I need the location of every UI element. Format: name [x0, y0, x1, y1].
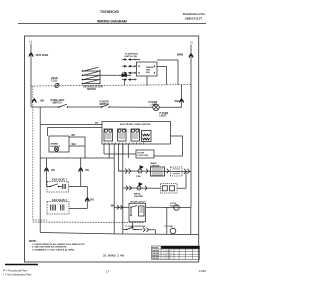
spark module box (left)	[49, 136, 69, 152]
spark box pin dots	[138, 66, 139, 67]
wire from box top right	[157, 60, 178, 85]
wire riser to dashed run	[181, 85, 183, 108]
row1 connector pair b	[184, 169, 190, 174]
oven lamp	[153, 104, 159, 110]
row2 igniter	[137, 186, 141, 190]
svg-text:17: 17	[106, 270, 110, 274]
selector right contact dots	[99, 71, 101, 84]
svg-text:LIGHT: LIGHT	[160, 116, 167, 118]
svg-text:BK: BK	[41, 99, 45, 103]
row1 connector b	[167, 169, 169, 173]
wire selector row to connector pair	[100, 74, 117, 76]
svg-text:P OVEN DOOR SW.: P OVEN DOOR SW.	[126, 226, 146, 228]
light circuit connector on L1	[32, 99, 36, 103]
wire from box bottom to dashed run	[146, 76, 148, 85]
wire riser to spark module	[47, 128, 49, 137]
svg-text:BK: BK	[91, 199, 95, 202]
row1 box solid	[151, 167, 165, 176]
wire oven dashed enclosure bottom stub	[33, 219, 47, 221]
wire row4 drop to dashed run	[124, 80, 126, 85]
row2 connector	[145, 186, 147, 190]
svg-text:BK: BK	[72, 134, 76, 137]
svg-text:P BK: P BK	[136, 176, 141, 178]
connector plug N	[189, 54, 193, 58]
svg-text:SW.: SW.	[146, 72, 150, 74]
relay K2	[118, 129, 127, 141]
svg-text:L1: L1	[29, 40, 33, 44]
svg-text:* = Non-Illustrated Part: * = Non-Illustrated Part	[3, 273, 32, 277]
svg-text:1. SHUNT REMOVE ALL WIRING ON: 1. SHUNT REMOVE ALL WIRING ON 3-WIRE AT …	[32, 243, 85, 246]
wire broil out	[69, 208, 87, 210]
svg-text:WH: WH	[72, 143, 76, 146]
parts table	[152, 246, 200, 259]
relay K1	[104, 129, 113, 141]
svg-text:BK: BK	[86, 169, 90, 172]
row2 connector pair	[126, 186, 132, 190]
connector plug L1	[29, 53, 33, 57]
connector on drop 2	[79, 168, 83, 172]
connector on latch row	[117, 205, 123, 209]
relay K3	[131, 129, 140, 141]
wire N bus lower	[190, 208, 192, 235]
svg-text:SPARK: SPARK	[51, 143, 59, 146]
svg-text:1 4 2 1 3 1: 1 4 2 1 3 1	[163, 258, 172, 260]
row1 igniter	[138, 169, 142, 173]
EOC pin drops	[104, 144, 128, 158]
wire drop 2	[80, 158, 82, 187]
svg-text:3. NUMBER N.O 3 NOT USED A AL: 3. NUMBER N.O 3 NOT USED A AL WIRE.	[32, 248, 75, 251]
svg-text:N: N	[191, 41, 193, 45]
svg-text:LOCK SW.: LOCK SW.	[138, 155, 149, 157]
row1 connector	[146, 169, 148, 173]
wire oven dashed enclosure left side	[32, 86, 34, 220]
wire pin long bus x114.2	[113, 144, 115, 234]
terminal row 1	[122, 59, 124, 61]
svg-text:TGF365CXD: TGF365CXD	[100, 10, 120, 14]
svg-text:5995271137: 5995271137	[185, 17, 202, 21]
row1 dashed box	[171, 167, 183, 176]
bake coil marks	[63, 184, 66, 189]
wire bottom return	[40, 233, 199, 235]
igniter electrode in box	[54, 147, 58, 151]
wire spark box out upper	[69, 136, 85, 138]
wire y84 segment to N bus	[147, 84, 191, 87]
oven light switch	[59, 104, 67, 107]
wire main dashed run y85 L1 to N	[31, 85, 147, 86]
wire pin corner to row1	[119, 144, 123, 171]
transformer T1	[142, 131, 152, 142]
connector on riser	[85, 198, 89, 202]
lock motor	[174, 205, 180, 211]
row2 dashed box	[161, 184, 178, 194]
bake switch	[47, 184, 62, 187]
wire riser x87.3	[86, 187, 88, 209]
door latch box	[129, 203, 146, 222]
selector switch right riser	[99, 70, 101, 84]
wire lamp to riser	[159, 106, 181, 108]
latch switch inside	[131, 206, 137, 216]
wire tap vertical from light line	[39, 107, 41, 158]
connector on door switch row	[143, 228, 149, 232]
row1 connector pair	[125, 169, 131, 174]
broil burner box	[47, 202, 69, 215]
wire pair to EOC upper	[40, 124, 102, 126]
wire from box right mid	[157, 67, 167, 85]
svg-text:SPARK: SPARK	[146, 66, 154, 69]
wire bake out	[69, 186, 88, 188]
connector on drop	[44, 168, 48, 172]
svg-text:GAS VALVE 1: GAS VALVE 1	[52, 179, 68, 182]
diagram border frame	[25, 36, 199, 262]
svg-text:BRN: BRN	[177, 53, 183, 57]
terminal row 4	[122, 79, 124, 81]
connector pair mid	[118, 74, 132, 77]
terminal row 3	[122, 72, 124, 74]
svg-text:NOTE:: NOTE:	[29, 240, 37, 243]
svg-text:240V 60HZ: 240V 60HZ	[36, 54, 49, 57]
connector on riser	[179, 99, 183, 103]
svg-text:UNITS & SW.: UNITS & SW.	[125, 56, 138, 58]
svg-text:TGF365: TGF365	[152, 258, 159, 260]
spark module box (top)	[137, 62, 158, 76]
svg-text:2. SEE USE WIRE AS SHOWN RE.: 2. SEE USE WIRE AS SHOWN RE.	[32, 246, 67, 249]
svg-text:SWITCH: SWITCH	[53, 103, 62, 105]
wire long dashed y222	[33, 221, 144, 224]
svg-text:BK: BK	[95, 123, 99, 125]
wire latch to lock motor	[146, 206, 191, 208]
wire light circuit	[31, 106, 59, 108]
wire spark box out lower	[69, 145, 85, 147]
door switch	[127, 227, 134, 230]
svg-text:31 8062 1 49: 31 8062 1 49	[103, 254, 124, 258]
bottom rule	[5, 264, 38, 266]
conv motor	[170, 228, 176, 234]
row2 wire	[123, 187, 161, 189]
bake burner box	[47, 182, 69, 193]
wire latch row	[114, 206, 129, 208]
svg-text:BK: BK	[111, 204, 115, 207]
wire L1 bus	[30, 44, 32, 108]
header rule	[18, 23, 206, 25]
svg-text:BK: BK	[52, 169, 56, 172]
broil element 2	[61, 205, 64, 211]
selector switch blades	[84, 67, 99, 83]
wire row2 to N	[177, 172, 186, 189]
wire tap down x166.8	[166, 208, 168, 235]
terminal pin marks	[134, 59, 136, 81]
door light switch	[102, 104, 109, 107]
svg-text:Publication No.: Publication No.	[183, 12, 206, 16]
wire riser x85	[84, 137, 86, 158]
svg-text:WH: WH	[175, 99, 179, 103]
wire pin bus y154	[104, 153, 136, 155]
EOC electronic oven control box	[102, 122, 171, 145]
wire horizontal y158	[40, 157, 114, 159]
selector switch contact dots	[82, 71, 84, 84]
svg-text:SWITCH: SWITCH	[87, 89, 96, 91]
wire drop to bake box	[46, 158, 48, 187]
EOC bottom pin ticks	[105, 143, 144, 145]
svg-text:IGNITER: IGNITER	[134, 196, 143, 198]
wire EOC right out	[154, 136, 183, 156]
wire left return vertical x40	[39, 158, 41, 233]
wire pin corner to row2	[122, 144, 124, 234]
relay box below EOC	[136, 150, 154, 158]
row1 wire	[119, 170, 191, 173]
selector switch block rows	[83, 71, 101, 84]
svg-text:11/98: 11/98	[199, 269, 206, 273]
svg-text:WIRING DIAGRAM: WIRING DIAGRAM	[97, 20, 127, 24]
wire N bus	[190, 45, 192, 208]
svg-text:T.O.D.: T.O.D.	[51, 80, 58, 82]
wire door switch row	[132, 222, 134, 230]
broil element 1	[51, 205, 56, 211]
terminal row 2	[122, 65, 124, 67]
svg-text:ELECTRONIC OVEN CONTROL: ELECTRONIC OVEN CONTROL	[120, 124, 152, 126]
thermostat TOD symbol	[55, 84, 59, 88]
